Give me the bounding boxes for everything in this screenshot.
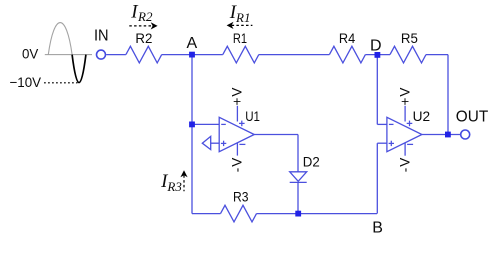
svg-text:R2: R2 xyxy=(135,30,152,46)
svg-text:R5: R5 xyxy=(401,30,418,46)
svg-text:-V: -V xyxy=(397,157,412,173)
svg-text:B: B xyxy=(372,220,383,237)
svg-text:R3: R3 xyxy=(166,179,182,194)
svg-text:A: A xyxy=(187,35,198,52)
svg-text:D: D xyxy=(370,37,382,54)
svg-text:D2: D2 xyxy=(303,153,320,169)
svg-text:-V: -V xyxy=(229,157,244,173)
svg-text:+V: +V xyxy=(229,87,244,106)
svg-text:−10V: −10V xyxy=(10,74,42,90)
svg-text:U1: U1 xyxy=(245,108,260,124)
svg-text:R1: R1 xyxy=(235,10,250,25)
svg-text:R2: R2 xyxy=(137,9,153,24)
svg-text:IN: IN xyxy=(94,27,109,44)
svg-text:R3: R3 xyxy=(233,188,249,204)
svg-text:R4: R4 xyxy=(339,30,355,46)
svg-text:+V: +V xyxy=(397,87,412,106)
svg-text:U2: U2 xyxy=(413,108,431,124)
svg-text:R1: R1 xyxy=(233,30,247,46)
svg-text:0V: 0V xyxy=(22,46,39,62)
svg-text:OUT: OUT xyxy=(456,109,489,126)
